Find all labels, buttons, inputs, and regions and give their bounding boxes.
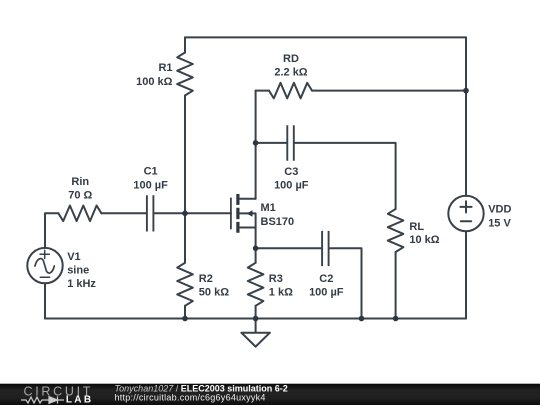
label RL — [409, 221, 439, 246]
capacitor C3 plates — [287, 125, 294, 161]
wire VDD bottom — [465, 231, 467, 318]
capacitor C1 plates — [147, 195, 154, 231]
label M1 — [261, 202, 295, 228]
node R2 ground junction — [182, 316, 188, 322]
wire R3 bottom lead — [255, 306, 257, 319]
label RD — [274, 53, 307, 79]
svg-text:1 kHz: 1 kHz — [67, 278, 96, 290]
svg-text:Rin: Rin — [71, 176, 89, 188]
svg-text:2.2 kΩ: 2.2 kΩ — [274, 67, 307, 79]
svg-text:100 kΩ: 100 kΩ — [136, 76, 173, 88]
svg-text:100 µF: 100 µF — [274, 180, 309, 192]
wire R2 bottom lead — [184, 306, 186, 319]
svg-text:70 Ω: 70 Ω — [68, 189, 92, 201]
wire R2 top lead — [184, 213, 186, 262]
wire RL bottom lead — [395, 252, 397, 319]
wire V1 top to Rin — [45, 213, 58, 248]
wire source vertical — [255, 228, 257, 249]
source V1 sine — [35, 259, 54, 274]
resistor R3 1k — [248, 263, 264, 306]
label C3 — [274, 166, 309, 192]
transistor M1 drain stub — [240, 198, 256, 200]
transistor M1 channel bars — [236, 194, 239, 233]
svg-text:C3: C3 — [284, 166, 298, 178]
wire R1 top lead — [184, 37, 186, 52]
svg-text:R1: R1 — [158, 62, 172, 74]
svg-text:V1: V1 — [67, 251, 80, 263]
svg-text:15 V: 15 V — [488, 218, 511, 230]
node gate junction — [182, 211, 188, 217]
svg-text:RD: RD — [283, 53, 299, 65]
ground stem — [255, 319, 257, 333]
wire R3 top lead — [255, 248, 257, 262]
ground triangle — [241, 333, 270, 347]
node RL ground junction — [393, 316, 399, 322]
transistor M1 body stub — [240, 213, 256, 227]
transistor M1 source stub — [240, 227, 256, 229]
source V1 minus — [40, 276, 49, 278]
wire drain vertical — [255, 91, 257, 199]
svg-text:R2: R2 — [199, 273, 213, 285]
label R2 — [199, 273, 229, 298]
wire C2 right to ground rail — [330, 248, 362, 318]
wire C3 to RL top — [295, 143, 396, 209]
node drain junction C3 — [253, 140, 259, 146]
wire Rin to C1 — [101, 212, 145, 214]
wire top rail — [185, 36, 466, 38]
resistor RD 2.2k — [269, 83, 312, 99]
svg-text:M1: M1 — [261, 202, 276, 214]
node RD-VDD junction — [463, 88, 469, 94]
svg-text:100 µF: 100 µF — [133, 179, 168, 191]
label Rin — [68, 176, 92, 201]
source VDD minus — [461, 220, 471, 222]
svg-text:BS170: BS170 — [261, 216, 295, 228]
transistor M1 gate bar — [230, 198, 232, 228]
source V1 plus — [40, 250, 49, 258]
node source junction — [253, 246, 259, 252]
label VDD — [488, 203, 511, 229]
label C1 — [133, 165, 168, 191]
wire VDD top — [465, 37, 467, 196]
resistor Rin 70 — [58, 206, 101, 222]
source VDD plus — [460, 201, 471, 212]
label C2 — [309, 273, 344, 298]
label R1 — [136, 62, 173, 88]
wire R1 to node gate — [184, 96, 186, 214]
capacitor C2 plates — [322, 231, 329, 266]
svg-text:LAB: LAB — [66, 395, 93, 405]
svg-text:C1: C1 — [144, 165, 158, 177]
node R3 ground junction — [253, 316, 259, 322]
wire RD left lead — [256, 90, 269, 92]
resistor R2 50k — [177, 263, 193, 306]
svg-text:50 kΩ: 50 kΩ — [199, 286, 229, 298]
wire V1 bottom — [44, 283, 46, 318]
wire node source to C2 — [256, 247, 322, 249]
footer bar — [0, 384, 540, 405]
source VDD circle — [448, 196, 483, 231]
wire gate lead — [185, 212, 231, 214]
label R3 — [269, 273, 293, 298]
label V1 — [67, 251, 96, 290]
resistor RL 10k — [388, 209, 404, 252]
source V1 circle — [27, 248, 62, 283]
svg-text:VDD: VDD — [488, 203, 511, 215]
svg-text:sine: sine — [67, 265, 89, 277]
transistor M1 arrow — [247, 210, 253, 217]
wire RD right lead — [312, 90, 466, 92]
svg-text:RL: RL — [409, 221, 424, 233]
svg-text:1 kΩ: 1 kΩ — [269, 286, 293, 298]
wire C3 left lead — [256, 142, 287, 144]
node C2 ground junction — [359, 316, 365, 322]
svg-text:http://circuitlab.com/c6g6y64u: http://circuitlab.com/c6g6y64uxyyk4 — [115, 393, 266, 403]
svg-text:C2: C2 — [319, 273, 333, 285]
wire bottom rail — [45, 318, 466, 320]
wire C1 to node gate — [154, 212, 185, 214]
svg-text:100 µF: 100 µF — [309, 286, 344, 298]
resistor R1 100k — [177, 53, 193, 96]
svg-text:R3: R3 — [269, 273, 283, 285]
footer logo resistor-diode glyph — [21, 396, 64, 403]
svg-text:10 kΩ: 10 kΩ — [409, 234, 439, 246]
